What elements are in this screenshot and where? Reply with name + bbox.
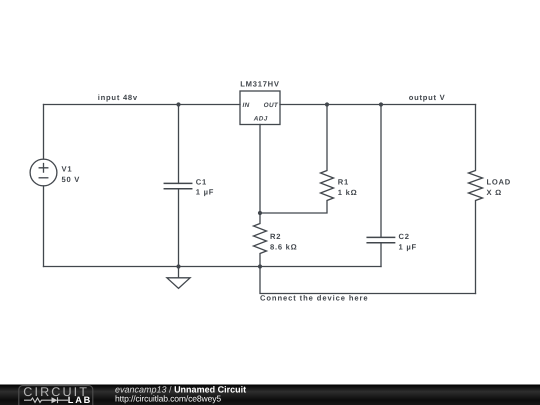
svg-text:X Ω: X Ω [487,188,503,197]
svg-text:Connect the device here: Connect the device here [260,294,368,303]
svg-text:LM317HV: LM317HV [240,80,280,89]
svg-text:ADJ: ADJ [253,116,268,123]
svg-text:V1: V1 [62,165,73,174]
svg-text:1 kΩ: 1 kΩ [338,188,358,197]
svg-text:R2: R2 [270,232,281,241]
svg-text:LAB: LAB [68,395,92,405]
svg-text:8.6 kΩ: 8.6 kΩ [270,242,297,251]
svg-text:output V: output V [409,93,446,102]
svg-text:R1: R1 [338,178,349,187]
svg-text:50 V: 50 V [62,175,81,184]
svg-text:LOAD: LOAD [487,178,512,187]
svg-text:IN: IN [243,102,250,109]
svg-text:C2: C2 [399,232,410,241]
svg-text:1 µF: 1 µF [196,188,214,197]
svg-text:1 µF: 1 µF [399,242,417,251]
svg-text:http://circuitlab.com/ce8wey5: http://circuitlab.com/ce8wey5 [115,394,221,404]
svg-text:input 48v: input 48v [98,93,138,102]
svg-text:OUT: OUT [264,102,279,109]
svg-text:C1: C1 [196,177,207,186]
